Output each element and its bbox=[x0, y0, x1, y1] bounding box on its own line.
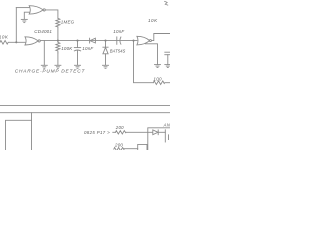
resistor 10K input (left edge) bbox=[0, 41, 8, 45]
svg-text:200: 200 bbox=[114, 142, 123, 147]
svg-text:10K: 10K bbox=[148, 18, 158, 23]
wire row2 bbox=[124, 148, 138, 150]
wire node to 100R row bbox=[134, 41, 154, 83]
svg-text:10K: 10K bbox=[0, 35, 9, 40]
ground (charge-pump node 1) bbox=[41, 65, 47, 68]
svg-text:100: 100 bbox=[153, 76, 162, 81]
wire P17 stub bbox=[113, 131, 116, 133]
resistor 100K bbox=[56, 41, 60, 53]
wire U1A lower input stub bbox=[24, 12, 30, 19]
resistor 100 bbox=[153, 81, 164, 85]
wire box pin to rail 2 bbox=[31, 113, 33, 121]
junction dots bbox=[15, 40, 134, 44]
component box bottom-left bbox=[6, 120, 32, 150]
ground (right edge cap) bbox=[165, 65, 170, 68]
wire rail 1 bbox=[0, 105, 170, 107]
svg-text:0825 P17 >: 0825 P17 > bbox=[84, 130, 110, 135]
svg-text:10nF: 10nF bbox=[82, 46, 93, 51]
wire feedback top horizontal bbox=[16, 7, 29, 9]
ground (BAT54S) bbox=[103, 65, 109, 68]
svg-text:1MEG: 1MEG bbox=[61, 20, 75, 25]
wire 100R to right edge bbox=[165, 82, 170, 84]
resistor fragment top right corner bbox=[165, 1, 168, 5]
component box bottom-right bbox=[148, 128, 170, 150]
wire U1A output to 1MEG bbox=[45, 10, 58, 18]
wire feedback vertical bbox=[15, 8, 17, 43]
svg-text:BAT54S: BAT54S bbox=[110, 48, 126, 53]
wire U1C output up to top rail bbox=[151, 34, 170, 41]
resistor 200 row2 fragment bbox=[114, 148, 124, 151]
wire U1C output down branch bbox=[146, 44, 158, 64]
wire ground branch from U1B output bbox=[43, 41, 45, 65]
diode BAT54S shunt bbox=[103, 41, 108, 65]
wire rail 2 bbox=[0, 112, 170, 114]
wire 200 to box bbox=[126, 131, 153, 133]
svg-text:200: 200 bbox=[115, 125, 124, 130]
svg-text:CD4001: CD4001 bbox=[34, 29, 52, 34]
capacitor 100n right edge bbox=[165, 52, 170, 64]
svg-text:10nF: 10nF bbox=[113, 29, 124, 34]
resistor 1MEG bbox=[56, 18, 60, 27]
diode D1 series bbox=[90, 38, 96, 43]
wire main node line bbox=[40, 40, 137, 42]
svg-text:AN: AN bbox=[163, 122, 170, 127]
svg-text:CHARGE-PUMP DETECT: CHARGE-PUMP DETECT bbox=[15, 69, 86, 75]
wire 100K to ground bbox=[57, 53, 59, 65]
gate U1B CD4001 NOR lower-left bbox=[25, 37, 40, 45]
small box row2 bbox=[138, 144, 147, 150]
gate U1C CD4001 NOR right bbox=[137, 36, 152, 45]
wire input to U1B bbox=[9, 41, 25, 43]
capacitor 10nF series bbox=[117, 37, 121, 44]
svg-text:100K: 100K bbox=[61, 46, 73, 51]
wire 1MEG to node bbox=[57, 27, 59, 41]
gate U1A CD4001 NOR top-left bbox=[29, 6, 45, 14]
ground (100K) bbox=[55, 65, 61, 68]
resistor 200 row1 bbox=[116, 131, 126, 134]
ground (U1A input) bbox=[21, 19, 27, 22]
ground (10nF shunt) bbox=[75, 65, 81, 68]
connector pins right edge bbox=[165, 130, 168, 142]
capacitor 10nF shunt bbox=[74, 41, 80, 65]
ground (U1C branch) bbox=[155, 65, 161, 68]
diode opto input bbox=[153, 130, 166, 135]
